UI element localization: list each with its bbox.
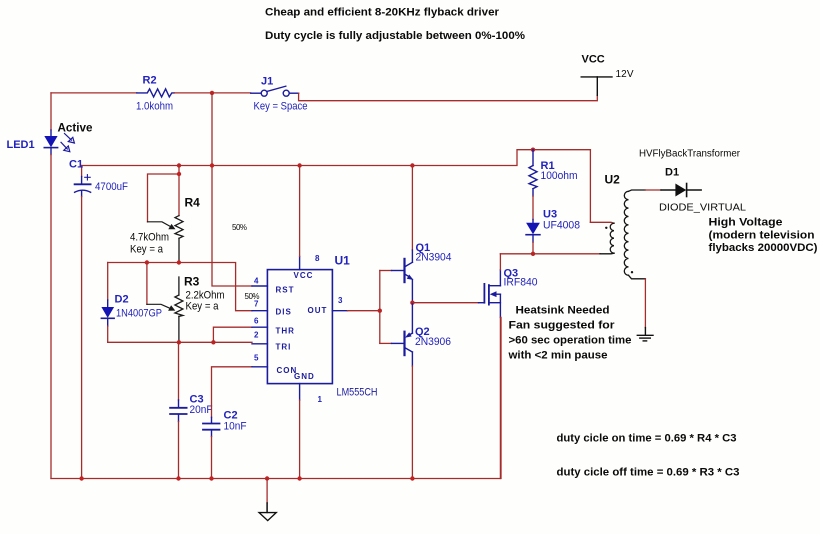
node dot rail x212 — [210, 163, 214, 167]
node dot bottom rail Q2 — [410, 476, 414, 480]
node dot emitter junction — [410, 301, 414, 305]
svg-text:100ohm: 100ohm — [541, 170, 578, 182]
switch J1 — [251, 86, 299, 96]
wire DIS rail y262.5 — [108, 263, 252, 311]
transformer U2 primary coil — [610, 223, 614, 253]
node dot R1 top — [531, 148, 535, 152]
svg-text:Duty cycle is fully adjustable: Duty cycle is fully adjustable between 0… — [265, 30, 525, 42]
svg-text:(modern television: (modern television — [709, 229, 815, 241]
wire J1 to VCC source — [299, 93, 598, 101]
capacitor C2 — [203, 417, 220, 478]
power source VCC 12V — [581, 77, 612, 95]
wire bottom rail — [51, 317, 501, 478]
wire R1 top feed — [589, 150, 591, 223]
svg-text:4: 4 — [254, 276, 259, 285]
node dot rail Q1 collector — [410, 163, 414, 167]
svg-text:1N4007GP: 1N4007GP — [116, 308, 162, 320]
svg-text:D2: D2 — [115, 293, 129, 305]
svg-text:C1: C1 — [69, 158, 83, 170]
svg-text:50%: 50% — [232, 223, 247, 232]
transistor Q2 2N3906 — [405, 303, 413, 366]
R4 wiper wire — [148, 174, 180, 222]
node dot DIS rail wiper R3 — [145, 260, 149, 264]
R3 wiper wire — [146, 263, 148, 305]
svg-text:THR: THR — [276, 326, 295, 335]
svg-text:duty cicle on time = 0.69 * R4: duty cicle on time = 0.69 * R4 * C3 — [557, 432, 737, 444]
svg-text:DIS: DIS — [276, 307, 292, 316]
wire primary bottom rail — [500, 253, 600, 255]
svg-text:20nF: 20nF — [190, 404, 213, 416]
wire Q3 drain up — [499, 254, 501, 270]
node dot top rail x212 — [210, 91, 214, 95]
svg-text:5: 5 — [254, 354, 259, 363]
svg-text:R2: R2 — [143, 75, 157, 87]
svg-text:UF4008: UF4008 — [543, 220, 580, 232]
svg-text:LED1: LED1 — [7, 139, 35, 151]
wire Q1 collector from rail — [411, 166, 413, 251]
transformer U2 phase dot primary — [605, 227, 607, 229]
node dot bottom rail C3 — [176, 476, 180, 480]
svg-text:1: 1 — [318, 395, 323, 404]
svg-text:C2: C2 — [224, 409, 238, 421]
U1 pin numbers — [254, 254, 343, 404]
wire U1 GND pin to bottom rail — [299, 400, 301, 479]
svg-text:TRI: TRI — [276, 342, 292, 351]
wire R1 to U3 — [532, 196, 534, 220]
svg-text:Key = a: Key = a — [186, 301, 220, 313]
wire secondary to D1 — [645, 189, 661, 191]
transformer U2 secondary lead bottom — [629, 275, 646, 279]
diode U3 UF4008 — [526, 220, 540, 254]
ground symbol right — [637, 328, 653, 341]
transformer U2 secondary lead top — [629, 190, 646, 191]
R4 wiper arrow — [148, 222, 176, 230]
wire top rail from LED column to R2 — [51, 92, 137, 94]
svg-text:>60 sec operation time: >60 sec operation time — [509, 335, 632, 347]
svg-text:7: 7 — [254, 300, 259, 309]
svg-text:4.7kOhm: 4.7kOhm — [130, 231, 169, 243]
wire vertical VCC feed x212 (to RST) — [212, 93, 252, 286]
svg-text:VCC: VCC — [294, 271, 314, 280]
svg-text:10nF: 10nF — [224, 421, 247, 433]
node dot OUT branch — [378, 309, 382, 313]
capacitor C1 — [75, 166, 91, 479]
svg-text:with <2 min pause: with <2 min pause — [507, 350, 607, 362]
svg-text:2: 2 — [254, 330, 259, 339]
svg-text:1.0kohm: 1.0kohm — [136, 101, 173, 113]
U1 pin texts — [276, 271, 328, 381]
svg-text:GND: GND — [294, 372, 315, 381]
wire THR branch — [213, 327, 252, 342]
svg-text:8: 8 — [315, 254, 320, 263]
transformer U2 primary lead bottom — [600, 252, 614, 255]
svg-text:U2: U2 — [605, 173, 621, 187]
node dot bottom rail U1 GND — [297, 476, 301, 480]
svg-text:U1: U1 — [335, 253, 351, 267]
svg-text:R4: R4 — [185, 195, 201, 209]
node dot bottom rail C2 — [209, 476, 213, 480]
node dot bottom rail ground — [265, 476, 269, 480]
wire CON branch — [212, 367, 253, 418]
svg-text:2N3904: 2N3904 — [416, 252, 452, 264]
LED LED1 — [44, 93, 57, 155]
wire gate drive — [412, 302, 478, 304]
wire Q2 collector to bottom rail — [411, 366, 413, 479]
LED1 emission arrows — [61, 134, 74, 152]
svg-text:2N3906: 2N3906 — [415, 336, 451, 348]
wire Q3 source to bottom rail — [499, 317, 501, 478]
capacitor C3 — [170, 342, 187, 478]
svg-text:High Voltage: High Voltage — [709, 217, 783, 229]
transistor Q1 2N3904 — [405, 250, 414, 303]
svg-text:2.2kOhm: 2.2kOhm — [186, 289, 225, 301]
node dot DIS rail R3 top — [177, 260, 181, 264]
svg-text:OUT: OUT — [308, 306, 328, 315]
svg-text:VCC: VCC — [582, 54, 605, 66]
transformer U2 secondary coil — [624, 191, 628, 275]
node dot R4 wiper — [177, 172, 181, 176]
potentiometer R4 — [175, 166, 183, 263]
transformer U2 phase dot secondary — [631, 271, 633, 273]
node dot rail U1 VCC — [297, 163, 301, 167]
wire U1 VCC pin to rail — [299, 166, 301, 257]
diode D2 — [101, 263, 114, 343]
svg-text:6: 6 — [254, 316, 259, 325]
svg-text:J1: J1 — [261, 76, 273, 88]
resistor R2 — [137, 89, 175, 97]
node dot bottom rail C1 — [79, 476, 83, 480]
potentiometer R3 — [175, 277, 183, 342]
svg-text:flybacks 20000VDC): flybacks 20000VDC) — [709, 242, 818, 254]
svg-text:DIODE_VIRTUAL: DIODE_VIRTUAL — [659, 202, 746, 213]
svg-text:Active: Active — [58, 120, 93, 134]
mosfet Q3 IRF840 — [479, 270, 501, 318]
svg-text:LM555CH: LM555CH — [337, 386, 378, 398]
wire secondary bottom to ground — [644, 279, 646, 328]
svg-text:R3: R3 — [184, 274, 200, 288]
wire LED to bottom rail (left column) — [50, 155, 52, 479]
svg-text:RST: RST — [276, 286, 295, 295]
svg-text:Key = a: Key = a — [130, 243, 164, 255]
op chip U1 LM555CH body — [267, 270, 332, 384]
diode D1 — [661, 184, 701, 197]
node dot rail R4 — [177, 163, 181, 167]
node dot U3 bottom — [531, 252, 535, 256]
text High Voltage block — [709, 217, 818, 255]
node dot TRI rail THR branch — [211, 340, 215, 344]
wire R2 to J1 — [174, 92, 250, 94]
svg-text:4700uF: 4700uF — [95, 181, 128, 193]
svg-text:Key = Space: Key = Space — [254, 101, 308, 113]
R3 wiper arrow — [147, 304, 175, 311]
wire to Q1 base — [380, 270, 392, 272]
wire VCC rail y165.5 — [82, 150, 591, 166]
wire OUT to driver bases — [348, 310, 380, 312]
svg-text:3: 3 — [338, 296, 343, 305]
svg-text:Fan suggested for: Fan suggested for — [509, 320, 616, 332]
svg-text:Cheap and efficient 8-20KHz fl: Cheap and efficient 8-20KHz flyback driv… — [265, 7, 500, 19]
wire base bus vertical — [379, 271, 381, 344]
svg-text:duty cicle off time = 0.69 * R: duty cicle off time = 0.69 * R3 * C3 — [557, 466, 740, 478]
U1 pin stubs — [252, 257, 348, 401]
svg-text:Heatsink Needed: Heatsink Needed — [516, 305, 610, 317]
ground symbol bottom — [259, 479, 276, 521]
node dot TRI rail C3 — [177, 340, 181, 344]
transformer U2 primary lead top — [590, 221, 614, 224]
svg-text:IRF840: IRF840 — [504, 277, 538, 289]
text Heatsink block — [507, 305, 631, 362]
svg-text:HVFlyBackTransformer: HVFlyBackTransformer — [639, 148, 741, 159]
wire TRI rail y342.3 — [108, 341, 252, 343]
svg-text:D1: D1 — [665, 167, 679, 179]
svg-text:12V: 12V — [616, 69, 634, 80]
wire to Q2 base — [380, 342, 392, 344]
resistor R1 — [529, 150, 537, 196]
